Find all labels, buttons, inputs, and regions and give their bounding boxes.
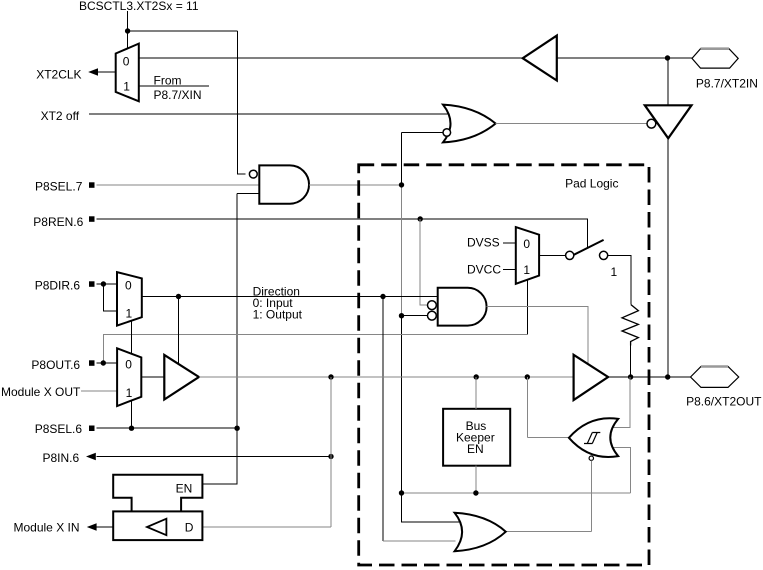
latch U13 EN box <box>113 475 202 512</box>
bubble on U10 enable <box>647 119 656 128</box>
wire OR U8 output to oscillator driver bubble <box>496 123 647 125</box>
wire Direction branch down to buffer U11 <box>178 297 180 364</box>
pad symbol P8.7/XT2IN <box>692 49 738 68</box>
wire XT2 off to OR U8 top input <box>89 113 449 115</box>
wire D latch input horizontal <box>202 526 331 528</box>
svg-text:P8.7/XT2IN: P8.7/XT2IN <box>696 77 758 91</box>
svg-text:0: 0 <box>123 54 130 68</box>
svg-text:P8SEL.7: P8SEL.7 <box>35 180 83 194</box>
wire XT2CLK output from mux U1 <box>97 71 116 73</box>
bubble U3 bottom input <box>428 311 437 320</box>
wire P8DIR branch to input 1 <box>103 284 117 311</box>
wire pad line from U12 to pad P8.6 <box>608 376 690 378</box>
pad P8.7 gray top edge <box>701 47 730 50</box>
node pad line x=476 <box>474 374 479 379</box>
svg-text:P8.7/XIN: P8.7/XIN <box>154 88 202 102</box>
wire inverter input from pad P8.7 <box>557 57 692 59</box>
wire vertical x=237 P8SEL.6 riser to EN latch <box>202 194 237 484</box>
svg-text:0: 0 <box>125 357 132 371</box>
wire bus keeper bottom connection <box>475 466 477 493</box>
wire vertical x=401.5 upper black to OR U8 bubble <box>402 133 444 185</box>
node pad line resistor junction <box>628 374 633 379</box>
svg-text:1: 1 <box>126 386 133 400</box>
terminal P8DIR.6 <box>89 281 95 287</box>
node y493 x=476 <box>473 490 478 495</box>
node x=401.5 lower bubble junction <box>399 313 404 318</box>
inverter U9 (left-pointing buffer from P8.7 pad) <box>523 36 557 81</box>
node Direction junction x=178.5 <box>176 294 181 299</box>
svg-text:P8IN.6: P8IN.6 <box>43 451 80 465</box>
node P8.7 pad junction <box>665 55 670 60</box>
svg-text:Module X OUT: Module X OUT <box>1 385 81 399</box>
wire U14 enable from OR U7 output <box>506 460 592 531</box>
mux U4 DVSS/DVCC select <box>516 227 539 284</box>
wire vertical x=401.5 gray middle <box>401 185 403 316</box>
wire pad junction down to oscillator driver U10 <box>667 58 669 105</box>
wire vertical x=401.5 lower black down to OR U7 top input <box>402 316 460 522</box>
node P8DIR junction <box>101 281 106 286</box>
bubble on U2 top input <box>249 170 257 178</box>
bubble U14 enable <box>589 456 593 460</box>
wire AND U2 output to node x=401.5 <box>309 184 401 186</box>
wire mux U6 output to buffer U11 <box>141 376 164 378</box>
svg-text:XT2 off: XT2 off <box>41 109 80 123</box>
svg-text:XT2CLK: XT2CLK <box>36 68 81 82</box>
wire P8SEL.7 to AND U2 <box>97 184 260 186</box>
svg-text:P8OUT.6: P8OUT.6 <box>31 358 80 372</box>
terminal P8SEL.6 <box>89 426 95 432</box>
svg-text:0: 0 <box>523 237 530 251</box>
oscillator driver U10 (down-pointing triangle) <box>645 105 692 138</box>
svg-text:P8DIR.6: P8DIR.6 <box>35 279 81 293</box>
node pad line oscillator junction <box>665 374 670 379</box>
mux U6 P8OUT select <box>117 348 141 406</box>
wire resistor bottom lead <box>630 346 632 378</box>
wire keeper enable run y=493 <box>402 492 631 494</box>
mux U5 P8DIR select <box>117 272 142 326</box>
wire keeper run up to schmitt lower input <box>613 448 631 494</box>
wire AND U2 bottom input from P8SEL.6 vertical <box>237 193 259 195</box>
wire DVCC stub <box>503 269 516 271</box>
wire P8DIR.6 to mux U5 input 0 <box>97 283 118 285</box>
wire schmitt output to pad node <box>527 377 569 438</box>
wire schmitt upper input from pad node <box>613 377 630 427</box>
svg-text:D: D <box>185 520 194 534</box>
switch S1 arm <box>574 240 604 255</box>
arrow Module X IN left <box>87 523 97 531</box>
svg-text:DVCC: DVCC <box>467 263 501 277</box>
wire switch to resistor top <box>608 255 631 304</box>
OR U7 gate body <box>455 513 506 551</box>
svg-text:1: 1 <box>523 263 530 277</box>
buffer U11 <box>164 355 199 400</box>
wire input node vertical x=331 <box>330 377 332 527</box>
resistor R1 <box>622 305 638 346</box>
driver U12 pad driver <box>574 355 609 400</box>
svg-text:DVSS: DVSS <box>467 236 500 250</box>
terminal P8OUT.6 <box>89 360 95 366</box>
OR U8 gate body (XT2 off OR) <box>443 105 496 143</box>
wire pad line gray from U11 to driver U12 <box>199 376 574 378</box>
svg-text:P8REN.6: P8REN.6 <box>33 215 83 229</box>
dashed box Pad Logic <box>359 165 649 565</box>
mux U1 XT2CLK select <box>116 44 139 102</box>
wire mux U4 select from P8OUT node <box>527 280 529 335</box>
wire Direction line from U5 output to AND U3 <box>142 296 438 298</box>
wire AND U3 output to driver U12 enable <box>487 307 589 364</box>
wire BCSCTL3 branch horizontal to x=237.4 <box>128 30 238 32</box>
wire DVSS stub <box>503 242 516 244</box>
arrow XT2CLK left <box>88 68 98 76</box>
AND U2 gate body <box>259 165 309 203</box>
wire BCSCTL3 select vertical into mux U1 <box>127 11 129 48</box>
node pad line x=331 <box>328 374 333 379</box>
wire select gray run to x=103 <box>103 335 527 363</box>
terminal P8REN.6 <box>89 216 95 222</box>
wire mux1 input stub (From P8.7/XIN) <box>139 85 209 87</box>
wire P8REN.6 main to switch S1 <box>97 219 588 248</box>
wire mux U4 output to switch <box>539 254 566 256</box>
svg-text:P8SEL.6: P8SEL.6 <box>35 422 83 436</box>
wire mux0 input from inverter U9 output, y=58 <box>139 57 523 59</box>
pad symbol P8.6/XT2OUT <box>691 367 739 388</box>
svg-text:1: 1 <box>123 80 130 94</box>
wire P8REN branch down to AND U3 upper bubble <box>420 219 427 305</box>
pad P8.6 gray top edge <box>701 365 728 368</box>
wire Module X IN from latch <box>97 526 114 528</box>
node P8OUT junction <box>101 360 106 365</box>
wire bus keeper top connection <box>475 377 477 409</box>
bubble on U8 lower input <box>443 129 451 137</box>
wire U10 output down to P8.6 pad line <box>667 138 669 377</box>
node P8SEL.6 to riser x=237 <box>234 426 239 431</box>
svg-text:P8.6/XT2OUT: P8.6/XT2OUT <box>686 394 762 408</box>
svg-text:Module X IN: Module X IN <box>14 520 80 534</box>
box Bus Keeper EN <box>443 409 510 466</box>
bubble U3 middle input <box>428 301 437 310</box>
wire OR U7 bottom input <box>383 540 456 542</box>
node P8SEL.6 to U5/U6 select <box>129 426 134 431</box>
latch U13 D box <box>113 511 202 540</box>
clock triangle in U13 <box>147 519 166 536</box>
node Direction junction x=383 <box>380 294 385 299</box>
wire lower bubble input of AND U3 <box>402 315 428 317</box>
bubble switch left <box>566 251 574 259</box>
wire P8IN.6 line <box>97 456 332 458</box>
node y493 x=401.5 <box>399 490 404 495</box>
node AND U2 output junction <box>399 182 404 187</box>
svg-text:BCSCTL3.XT2Sx = 11: BCSCTL3.XT2Sx = 11 <box>79 0 199 13</box>
hysteresis symbol in U14 <box>584 433 600 444</box>
svg-text:0: 0 <box>125 279 132 293</box>
svg-text:1: Output: 1: Output <box>253 307 303 321</box>
svg-text:EN: EN <box>467 442 484 456</box>
wire Module X OUT to mux U6 input 1 <box>81 390 117 392</box>
arrow P8IN.6 left <box>86 453 96 461</box>
node P8IN junction <box>328 454 333 459</box>
svg-text:EN: EN <box>176 481 193 495</box>
wire mux U5 select riser (hidden behind U6) from P8SEL.6 <box>131 321 133 429</box>
wire BCSCTL3 branch vertical down to AND U2 bubble <box>237 31 245 174</box>
wire P8OUT.6 to mux U6 input 0 <box>97 362 118 364</box>
node P8REN junction at x=420 <box>418 216 423 221</box>
svg-text:1: 1 <box>611 265 618 279</box>
node pad line x=527 <box>525 374 530 379</box>
svg-text:From: From <box>154 74 182 88</box>
schmitt trigger U14 (mirrored OR) <box>569 418 618 457</box>
wire Direction branch down to OR U7 bottom input <box>382 297 384 542</box>
wire P8SEL.6 line <box>97 427 238 429</box>
bubble switch right <box>600 251 608 259</box>
svg-text:1: 1 <box>126 306 133 320</box>
node BCSCTL3 junction <box>125 28 130 33</box>
terminal P8SEL.7 <box>89 182 95 188</box>
svg-text:Pad Logic: Pad Logic <box>565 176 618 190</box>
AND U3 gate body <box>438 288 487 326</box>
